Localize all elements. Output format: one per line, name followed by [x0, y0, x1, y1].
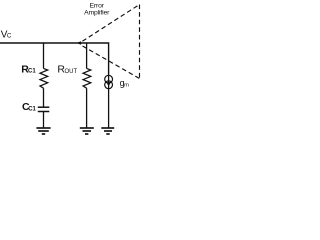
- ground (left): [36, 128, 50, 134]
- svg-text:OUT: OUT: [65, 69, 78, 75]
- wire: VC top rail and bend down to current source: [0, 43, 109, 75]
- svg-text:Error: Error: [90, 3, 105, 10]
- svg-text:Amplifier: Amplifier: [84, 10, 110, 17]
- resistor RC1: [40, 68, 48, 88]
- wire: ROUT to middle ground: [86, 88, 88, 128]
- ground (right): [101, 128, 114, 134]
- capacitor CC1: [38, 107, 50, 111]
- svg-text:m: m: [124, 83, 129, 89]
- amplifier output arrowhead at apex: [76, 41, 81, 45]
- svg-text:C: C: [7, 33, 12, 40]
- current direction arrow: [106, 82, 111, 86]
- label gm: [120, 78, 130, 89]
- wire: middle branch from rail to ROUT: [86, 43, 88, 68]
- current source gm (two circles): [105, 75, 113, 88]
- wire: CC1 to left ground: [43, 112, 45, 129]
- error amplifier dashed triangle: right edge: [139, 5, 141, 79]
- label RC1: [21, 63, 36, 75]
- wire: left branch from rail to RC1: [43, 43, 45, 68]
- wire: RC1 to CC1: [43, 88, 45, 107]
- label Error Amplifier: [84, 3, 110, 17]
- label ROUT: [57, 64, 77, 76]
- label CC1: [22, 101, 37, 113]
- svg-text:C1: C1: [28, 106, 36, 112]
- error amplifier dashed triangle: upper edge: [82, 5, 139, 42]
- svg-text:C1: C1: [28, 68, 36, 74]
- wire: through current source to right ground: [108, 75, 110, 128]
- error amplifier dashed triangle: lower edge: [80, 45, 139, 79]
- node VC label: [1, 29, 12, 40]
- ground (middle): [80, 128, 94, 134]
- resistor ROUT: [83, 68, 91, 88]
